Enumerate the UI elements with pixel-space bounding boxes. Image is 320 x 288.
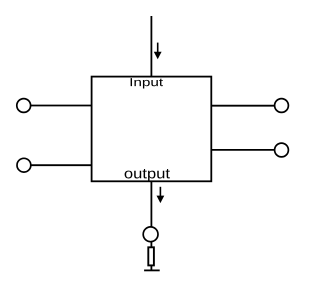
wire resistor to ground bbox=[150, 265, 152, 270]
subcircuit box bbox=[92, 77, 212, 182]
node port P1 bbox=[17, 99, 31, 113]
label output bbox=[125, 169, 170, 181]
wire right top bbox=[211, 105, 274, 107]
wire right bottom bbox=[211, 149, 274, 151]
wire input top bbox=[150, 16, 152, 77]
ground bbox=[144, 269, 160, 271]
wire left bottom bbox=[31, 164, 92, 166]
arrow input current bbox=[154, 43, 162, 60]
node port P3 bbox=[275, 99, 289, 113]
node port P4 bbox=[275, 143, 289, 157]
arrow output current bbox=[157, 187, 165, 203]
wire output bottom bbox=[150, 181, 152, 226]
wire node to resistor bbox=[150, 242, 152, 247]
node circle probe bbox=[143, 227, 158, 242]
node port P2 bbox=[17, 158, 31, 172]
resistor R1 bbox=[148, 247, 154, 265]
wire left top bbox=[31, 105, 92, 107]
label Input bbox=[131, 78, 163, 88]
